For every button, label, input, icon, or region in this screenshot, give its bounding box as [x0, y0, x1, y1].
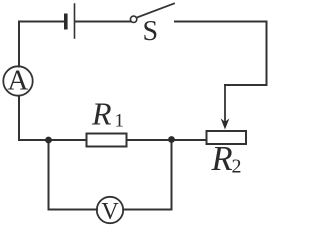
svg-text:1: 1 — [115, 111, 125, 132]
svg-text:R: R — [211, 140, 233, 178]
svg-text:A: A — [7, 65, 28, 97]
svg-text:R: R — [91, 96, 112, 132]
svg-text:2: 2 — [232, 156, 242, 178]
svg-text:V: V — [101, 199, 119, 225]
svg-text:S: S — [143, 16, 159, 47]
